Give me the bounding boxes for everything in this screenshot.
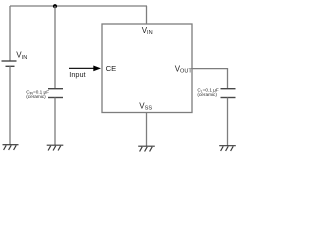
svg-text:VIN: VIN <box>142 26 153 36</box>
node: junction of CIN branch on top rail <box>53 4 57 8</box>
svg-text:(ceramic): (ceramic) <box>26 94 46 99</box>
svg-text:CE: CE <box>106 64 117 73</box>
wire: VSS pin to ground <box>146 113 148 147</box>
ground: CL ground symbol <box>219 146 236 151</box>
input arrow: head <box>93 66 101 72</box>
ground: battery ground symbol <box>3 145 19 150</box>
svg-text:Input: Input <box>69 70 85 79</box>
ground: VSS ground symbol <box>138 146 155 151</box>
wire: CIN branch down from junction <box>54 6 56 89</box>
wire: battery negative to ground <box>9 66 11 144</box>
svg-text:(ceramic): (ceramic) <box>197 92 217 97</box>
capacitor CL: bottom plate <box>221 97 236 99</box>
ground: CIN ground symbol <box>47 145 64 150</box>
wire: VIN pin drop into IC <box>146 6 148 24</box>
wire: VOUT to CL <box>192 69 228 89</box>
capacitor CL: top plate <box>221 88 236 90</box>
capacitor CIN: top plate <box>48 88 63 90</box>
svg-text:VOUT: VOUT <box>175 65 193 75</box>
battery VIN: long positive plate <box>2 60 17 62</box>
svg-text:VIN: VIN <box>16 51 27 61</box>
svg-text:VSS: VSS <box>139 102 152 112</box>
wire: top rail from battery to VIN pin corner <box>10 5 147 7</box>
capacitor CIN: bottom plate <box>48 97 63 99</box>
wire: CIN to ground <box>54 98 56 146</box>
IC U1: regulator body <box>102 24 192 113</box>
input arrow: shaft <box>69 67 95 69</box>
wire: battery positive up to top rail <box>9 6 11 61</box>
battery VIN: short negative plate <box>6 65 15 67</box>
wire: CL to ground <box>227 98 229 146</box>
